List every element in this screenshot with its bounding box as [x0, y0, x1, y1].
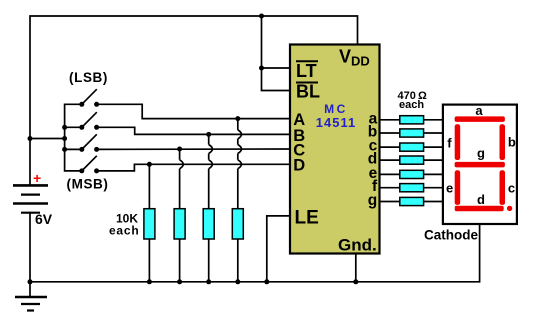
svg-text:D: D	[293, 157, 305, 175]
svg-text:Cathode: Cathode	[424, 228, 478, 243]
wire battery to switch bus	[30, 138, 65, 140]
segment d	[455, 206, 504, 212]
svg-text:DD: DD	[351, 54, 370, 69]
wire VDD top rail	[30, 16, 358, 185]
svg-text:each: each	[399, 99, 424, 111]
wire pin g to R11 to display	[379, 201, 442, 203]
wire ground rail bottom	[30, 225, 480, 282]
node junction ground rail R2	[177, 279, 182, 284]
wire R1 bottom	[148, 239, 150, 282]
svg-text:LE: LE	[295, 208, 319, 229]
node junction ground rail IC Gnd	[353, 279, 358, 284]
node junction switch bus feed	[62, 136, 67, 141]
svg-text:+: +	[33, 170, 41, 186]
wire switch2 output to pin B	[97, 127, 291, 134]
wire pin f to R10 to display	[379, 187, 442, 189]
segment b	[500, 124, 506, 160]
wire battery negative down	[29, 213, 31, 297]
segment a	[455, 116, 505, 122]
wire hop col3 over C	[209, 145, 213, 154]
wire R2 bottom	[179, 239, 181, 282]
node junction D / R1 column	[147, 162, 152, 167]
battery B1 6V	[13, 185, 48, 212]
resistor R6 470	[400, 129, 424, 137]
op-amp U1 MC14511 IC body	[290, 45, 380, 254]
resistor R5 470	[400, 116, 424, 124]
svg-text:f: f	[447, 135, 452, 150]
svg-text:g: g	[368, 192, 377, 209]
resistor R9 470	[400, 170, 424, 178]
wire column 2 to R2 with hop over D	[179, 149, 181, 209]
svg-text:g: g	[477, 146, 485, 161]
decimal point	[507, 206, 512, 211]
node junction ground rail R1	[147, 279, 152, 284]
node junction top rail / LT-BL tap	[259, 14, 264, 19]
wire LT/BL feed	[262, 16, 291, 91]
resistor R7 470	[400, 143, 424, 151]
wire switch4 output to pin D	[97, 164, 291, 171]
resistor R1 10K	[144, 209, 155, 239]
svg-text:Gnd.: Gnd.	[338, 236, 377, 255]
wire hop col4 over B	[238, 130, 242, 139]
node junction ground rail R3	[206, 279, 211, 284]
svg-text:MC: MC	[324, 102, 348, 116]
wire pin a to R5 to display	[379, 119, 442, 121]
node junction switch bus S3	[62, 147, 67, 152]
resistor R2 10K	[174, 209, 185, 239]
wire column 3 to R3 with hops over C,D	[208, 134, 210, 208]
segment e	[455, 170, 461, 205]
switch S3	[79, 134, 99, 152]
display DS1 seven segment body	[443, 105, 517, 224]
svg-text:V: V	[339, 47, 351, 67]
svg-text:BL: BL	[296, 82, 320, 102]
node junction battery positive rail to switch bus	[28, 136, 33, 141]
node junction C / R2 column	[177, 147, 182, 152]
wire IC Gnd drop	[355, 254, 357, 282]
wire switch3 output to pin C	[97, 148, 291, 150]
wire pin b to R6 to display	[379, 132, 442, 134]
wire hop col3 over D	[209, 160, 213, 169]
resistor R11 470	[400, 197, 424, 205]
wire R4 bottom	[237, 239, 239, 282]
svg-text:d: d	[477, 192, 485, 207]
wire pin e to R9 to display	[379, 173, 442, 175]
svg-text:6V: 6V	[35, 211, 53, 227]
svg-text:e: e	[446, 181, 453, 196]
segment g	[455, 162, 505, 168]
switch S1 (LSB)	[79, 89, 99, 107]
wire hop col2 over D	[180, 160, 184, 169]
svg-text:14511: 14511	[316, 115, 356, 130]
node junction switch bus S2	[62, 125, 67, 130]
wire column 4 to R4 with hops over B,C,D	[237, 119, 239, 209]
node junction LT pin tap	[259, 66, 264, 71]
resistor R8 470	[400, 156, 424, 164]
wire switch bus	[65, 104, 82, 171]
wire LE to ground rail	[267, 216, 290, 282]
resistor R10 470	[400, 184, 424, 192]
wire column 1 to R1	[148, 164, 150, 208]
wire pin c to R7 to display	[379, 146, 442, 148]
segment c	[500, 170, 506, 205]
wire hop col4 over C	[238, 145, 242, 154]
node junction B / R3 column	[206, 132, 211, 137]
node junction A / R4 column	[235, 116, 240, 121]
wire hop col4 over D	[238, 160, 242, 169]
switch S4 (MSB)	[79, 156, 99, 174]
svg-text:each: each	[109, 224, 140, 238]
svg-text:(MSB): (MSB)	[67, 177, 109, 192]
svg-text:a: a	[475, 103, 483, 118]
node junction ground rail LE	[264, 279, 269, 284]
ground bottom-left	[15, 297, 47, 311]
switch S2	[79, 112, 99, 130]
wire switch1 output to pin A	[97, 104, 291, 118]
node junction ground rail left	[28, 279, 33, 284]
segment f	[455, 124, 461, 160]
resistor R4 10K	[232, 209, 243, 239]
svg-text:b: b	[508, 134, 516, 149]
resistor R3 10K	[203, 209, 214, 239]
svg-text:LT: LT	[296, 61, 317, 81]
node junction ground rail R4	[235, 279, 240, 284]
svg-text:c: c	[508, 181, 515, 196]
wire pin d to R8 to display	[379, 159, 442, 161]
svg-text:(LSB): (LSB)	[69, 70, 108, 85]
wire R3 bottom	[208, 239, 210, 282]
